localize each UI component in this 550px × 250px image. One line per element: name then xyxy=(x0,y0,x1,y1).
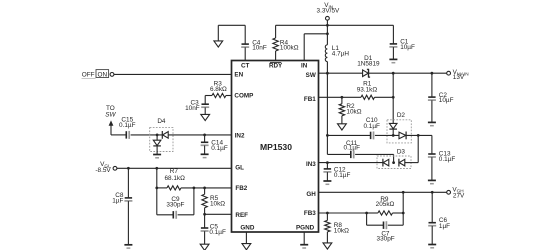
node VGL -8.5V xyxy=(95,161,116,174)
wire PGND xyxy=(303,232,305,244)
wire xyxy=(431,135,433,153)
svg-text:FB2: FB2 xyxy=(235,185,247,192)
wire xyxy=(218,25,245,44)
wire top rail xyxy=(276,24,394,27)
capacitor C2 xyxy=(428,92,454,104)
wire C10 branch xyxy=(327,134,370,136)
wire xyxy=(204,107,206,114)
svg-text:93.1kΩ: 93.1kΩ xyxy=(357,86,378,93)
capacitor C5 xyxy=(201,223,226,236)
svg-text:10nF: 10nF xyxy=(252,45,267,52)
wire xyxy=(341,116,343,124)
capacitor C14 xyxy=(201,140,228,153)
svg-text:10µF: 10µF xyxy=(400,44,415,51)
svg-text:COMP: COMP xyxy=(234,92,253,99)
wire xyxy=(431,192,433,222)
svg-text:6.8kΩ: 6.8kΩ xyxy=(210,86,227,93)
svg-text:10kΩ: 10kΩ xyxy=(346,108,361,115)
ground GND xyxy=(242,244,251,250)
wire REF xyxy=(203,213,231,216)
svg-text:13V: 13V xyxy=(453,74,465,81)
svg-text:0.1µF: 0.1µF xyxy=(439,156,456,163)
svg-text:CT: CT xyxy=(241,63,250,70)
resistor R5 xyxy=(202,188,225,214)
wire SW pump rail xyxy=(326,73,329,154)
wire GH xyxy=(319,191,447,194)
svg-text:330pF: 330pF xyxy=(166,202,184,209)
svg-text:0.1µF: 0.1µF xyxy=(344,145,361,152)
svg-text:330pF: 330pF xyxy=(377,236,395,243)
inductor L1 xyxy=(325,45,349,62)
wire xyxy=(111,134,126,136)
ground D4 xyxy=(153,155,161,158)
svg-text:1µF: 1µF xyxy=(439,223,450,230)
svg-text:PGND: PGND xyxy=(296,225,315,232)
wire xyxy=(431,226,433,244)
wire xyxy=(375,96,395,99)
wire GL xyxy=(117,167,232,170)
capacitor C7 xyxy=(377,221,395,242)
wire xyxy=(326,163,328,169)
capacitor C13 xyxy=(428,151,455,163)
resistor R4 xyxy=(273,38,299,52)
wire xyxy=(127,201,129,244)
svg-text:205kΩ: 205kΩ xyxy=(376,201,395,208)
node TO SW xyxy=(105,105,116,135)
node VIN 3.3V/5V xyxy=(317,2,340,20)
resistor R7 xyxy=(164,168,185,190)
svg-text:D4: D4 xyxy=(157,118,166,125)
svg-text:0.1µF: 0.1µF xyxy=(119,122,136,129)
wire xyxy=(156,168,158,188)
svg-text:D3: D3 xyxy=(397,148,406,155)
svg-text:FB1: FB1 xyxy=(304,96,316,103)
svg-text:FB3: FB3 xyxy=(304,210,316,217)
diode D1 1N5819 xyxy=(357,55,380,77)
svg-text:SW: SW xyxy=(306,72,316,79)
capacitor C4 xyxy=(241,39,267,51)
node VGH 27V xyxy=(447,186,465,199)
wire EN xyxy=(114,73,232,75)
svg-text:D2: D2 xyxy=(397,112,406,119)
wire IN xyxy=(304,34,327,61)
wire COMP xyxy=(205,95,231,97)
wire xyxy=(204,135,206,142)
wire IN2 xyxy=(168,134,231,136)
junction xyxy=(203,134,206,137)
wire xyxy=(392,25,394,43)
diode D2 xyxy=(387,112,411,143)
svg-text:1N5819: 1N5819 xyxy=(357,61,380,68)
ground C2 xyxy=(428,122,436,125)
svg-text:IN3: IN3 xyxy=(306,161,316,168)
svg-text:OFF: OFF xyxy=(82,72,95,79)
wire GND xyxy=(245,232,247,243)
ground C14 xyxy=(201,154,209,157)
svg-text:3.3V/5V: 3.3V/5V xyxy=(317,8,340,15)
resistor R1 xyxy=(357,81,378,100)
capacitor C1 xyxy=(389,38,415,51)
svg-text:IN2: IN2 xyxy=(235,133,245,140)
wire IN3 xyxy=(319,161,383,164)
wire xyxy=(431,73,433,97)
ground C5 xyxy=(200,244,209,250)
resistor R3 xyxy=(210,80,227,97)
wire xyxy=(355,154,394,162)
wire xyxy=(393,192,405,214)
capacitor C11 xyxy=(344,140,361,159)
wire xyxy=(204,214,206,228)
wire xyxy=(326,172,328,181)
svg-text:100kΩ: 100kΩ xyxy=(280,45,299,52)
wire C7 loop xyxy=(367,213,404,225)
capacitor C15 xyxy=(119,117,136,139)
wire xyxy=(406,134,432,137)
diode D4 xyxy=(150,118,173,151)
wire FB2 xyxy=(155,187,231,190)
ground R2 xyxy=(338,124,347,130)
ground C4 xyxy=(214,41,223,47)
wire xyxy=(275,25,277,38)
svg-text:68.1kΩ: 68.1kΩ xyxy=(164,175,185,182)
svg-text:REF: REF xyxy=(235,212,248,219)
capacitor C9 xyxy=(166,196,184,219)
svg-text:-8.5V: -8.5V xyxy=(95,167,111,174)
svg-text:MP1530: MP1530 xyxy=(260,142,292,152)
ground C12 xyxy=(323,181,331,184)
svg-text:10kΩ: 10kΩ xyxy=(210,201,225,208)
capacitor C3 xyxy=(185,100,209,113)
wire xyxy=(127,168,129,197)
wire xyxy=(156,146,158,154)
ground R8 xyxy=(323,243,332,249)
resistor R2 xyxy=(339,103,362,116)
svg-text:SW: SW xyxy=(105,112,116,119)
svg-text:EN: EN xyxy=(234,71,243,78)
svg-text:0.1µF: 0.1µF xyxy=(211,145,228,152)
svg-text:10kΩ: 10kΩ xyxy=(334,227,349,234)
wire xyxy=(326,62,328,74)
wire VMAIN xyxy=(369,72,447,75)
svg-text:0.1µF: 0.1µF xyxy=(209,229,226,236)
wire xyxy=(405,135,418,162)
op-amp U1 MP1530 IC xyxy=(232,61,319,233)
wire SW xyxy=(319,72,363,75)
wire xyxy=(375,134,399,136)
wire xyxy=(204,146,206,155)
diode D3 xyxy=(377,148,411,168)
wire xyxy=(326,213,328,220)
svg-text:4.7µH: 4.7µH xyxy=(332,51,350,58)
capacitor C10 xyxy=(363,117,380,139)
wire xyxy=(341,97,343,104)
wire xyxy=(131,134,163,136)
wire xyxy=(326,232,328,243)
ground C3 xyxy=(201,114,210,120)
svg-text:GH: GH xyxy=(306,191,316,198)
capacitor C8 xyxy=(112,192,132,204)
wire C3 branch xyxy=(204,96,206,105)
ground C13 xyxy=(428,180,436,183)
resistor R8 xyxy=(325,220,349,234)
wire xyxy=(204,231,206,244)
wire FB1 xyxy=(319,96,362,99)
capacitor C6 xyxy=(428,217,450,230)
svg-text:IN: IN xyxy=(301,63,308,70)
wire C11 branch xyxy=(327,153,350,155)
svg-text:RDY: RDY xyxy=(269,63,283,70)
wire xyxy=(326,34,328,45)
ground PGND xyxy=(300,245,308,248)
wire xyxy=(392,47,394,59)
svg-text:0.1µF: 0.1µF xyxy=(363,123,380,130)
svg-text:10nF: 10nF xyxy=(185,105,200,112)
svg-text:ON: ON xyxy=(98,72,108,79)
ground C8 xyxy=(124,245,132,248)
svg-text:GL: GL xyxy=(235,165,244,172)
wire C9 loop xyxy=(157,188,194,215)
ground C6 xyxy=(428,245,436,248)
wire xyxy=(326,20,329,35)
wire FB3 xyxy=(319,212,369,215)
resistor R9 xyxy=(376,196,395,215)
wire xyxy=(431,100,433,122)
node VMAIN 13V xyxy=(447,69,469,81)
wire RDY xyxy=(275,51,277,61)
wire xyxy=(431,157,433,180)
svg-text:GND: GND xyxy=(240,225,254,232)
svg-text:10µF: 10µF xyxy=(439,97,454,104)
wire xyxy=(367,212,378,214)
svg-text:1µF: 1µF xyxy=(112,198,123,205)
capacitor C12 xyxy=(323,167,350,179)
wire xyxy=(392,73,394,123)
svg-text:27V: 27V xyxy=(453,192,465,199)
ground C1 xyxy=(389,59,397,62)
svg-text:0.1µF: 0.1µF xyxy=(334,172,351,179)
node OFF/ON enable input xyxy=(82,70,114,79)
wire CT xyxy=(244,47,246,60)
